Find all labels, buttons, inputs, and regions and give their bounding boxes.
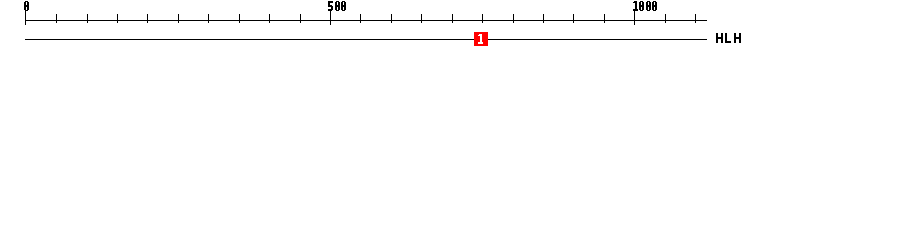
ruler minor ticks	[56, 14, 696, 23]
ruler major ticks 0 500 1000	[25, 11, 635, 25]
ruler label 500	[328, 1, 346, 11]
gene name HLH	[716, 33, 741, 43]
ruler baseline	[25, 20, 707, 21]
ruler label 1000	[633, 1, 657, 11]
gene track line	[25, 39, 707, 40]
background	[0, 0, 900, 58]
exon number 1 (white)	[478, 34, 483, 44]
exon box 1 (red)	[474, 32, 488, 46]
ruler label 0	[24, 1, 29, 11]
